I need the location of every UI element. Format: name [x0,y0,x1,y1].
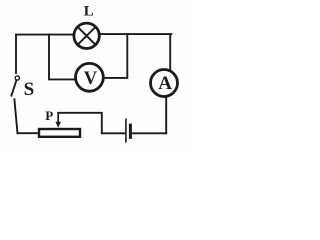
wire: slider to battery positive plate (up-over-down path) [58,113,125,134]
voltmeter V [76,63,104,91]
wire: right vertical (top-right corner down to ammeter top terminal) [169,34,171,71]
battery (cell): long thin positive plate [125,119,127,141]
wire: left vertical (switch lower contact down to bottom-left corner) [14,99,17,133]
wire: voltmeter branch left (junction on top wire down and right to voltmeter left terminal) [49,35,75,80]
wire: top-left horizontal (top-left corner to lamp left terminal, junction with voltmeter branch at x=49) [16,34,74,36]
battery (cell): short thick negative plate [129,125,132,137]
switch S [11,76,34,100]
lamp L (circle with X) [74,23,99,48]
wire: voltmeter branch right (voltmeter right terminal right and up to junction on top wire) [104,34,128,78]
wire: right vertical (bottom-right corner up to ammeter bottom terminal) [165,98,167,134]
svg-text:L: L [84,3,94,19]
rheostat slider arrow [55,113,61,128]
ammeter A [151,70,178,97]
wire: battery negative plate to bottom-right corner [132,132,166,134]
svg-text:P: P [45,108,53,123]
svg-text:S: S [24,79,35,100]
wire: top-right horizontal (lamp right terminal to top-right corner) [100,33,171,35]
svg-text:V: V [84,69,98,89]
rheostat P (resistor body) [39,129,80,137]
wire: left vertical (top-left corner down to switch) [15,35,17,73]
wire: bottom-left horizontal (bottom-left corner to rheostat left terminal) [18,132,39,134]
svg-text:A: A [158,73,172,94]
